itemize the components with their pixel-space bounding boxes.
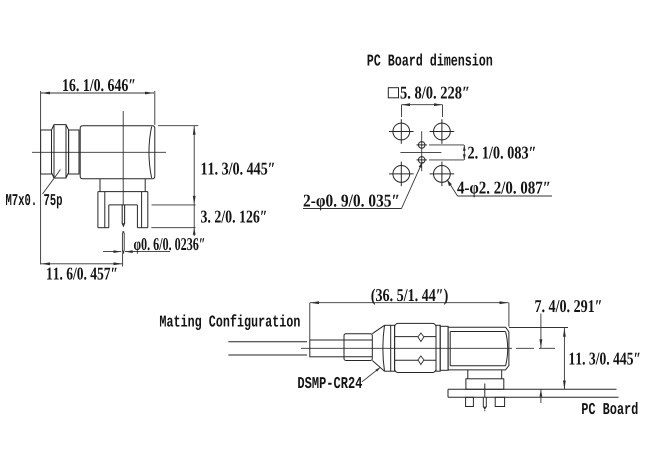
- interface face: [41, 130, 52, 174]
- body end-cap arc: [149, 127, 152, 178]
- label M7x0.75p: [6, 194, 62, 209]
- hole bottom-left: [389, 162, 414, 187]
- ext 5.8 right: [442, 105, 444, 117]
- leg inner right: [141, 192, 143, 228]
- pattern centerline horizontal: [400, 151, 441, 153]
- label 4-phi2.2: [457, 182, 549, 198]
- dim line 5.8: [402, 104, 443, 106]
- cable jacket top: [228, 341, 307, 343]
- label 16.1: [63, 79, 135, 91]
- ferrule inner top: [344, 339, 372, 341]
- ext body top right: [509, 327, 568, 329]
- leg bottom right: [137, 227, 147, 229]
- facet line upper: [395, 336, 436, 338]
- ext 5.8 left: [401, 105, 403, 117]
- cap top edge: [385, 324, 391, 326]
- slot shelf: [109, 204, 138, 206]
- pin needle tip: [122, 250, 124, 254]
- label phi 0.6: [134, 238, 204, 254]
- small hole lower: [417, 157, 427, 164]
- leg bottom left: [98, 227, 109, 229]
- leader DSMP: [362, 367, 381, 382]
- leader M7: [43, 170, 61, 195]
- cone lower: [372, 361, 384, 372]
- slot wall left: [108, 205, 110, 228]
- stem left: [99, 179, 101, 192]
- ring right: [436, 325, 440, 371]
- small hole upper: [417, 142, 427, 149]
- title Mating Configuration: [160, 314, 300, 330]
- crimp tube: [310, 340, 344, 357]
- nut chamfer line right: [65, 125, 67, 178]
- facet line lower: [395, 359, 436, 361]
- hex nut body: [395, 323, 436, 372]
- dim line 36.5: [310, 302, 509, 304]
- dim line 16.1: [41, 92, 154, 94]
- ext 36.5 right: [508, 303, 510, 327]
- nut chamfer line left: [53, 125, 55, 178]
- phi 0.6 dim arrows: [103, 251, 121, 253]
- stem right: [144, 179, 146, 192]
- ring left: [391, 325, 395, 371]
- label 7.4: [535, 300, 601, 312]
- underline 2-phi0.9: [303, 208, 402, 210]
- flange: [466, 379, 504, 390]
- dim 7.4 upper: [540, 314, 542, 349]
- cap arc: [383, 325, 385, 371]
- centerline horizontal: [32, 151, 166, 153]
- center pin through board: [484, 384, 486, 398]
- hole bottom-right: [430, 162, 455, 187]
- board left end: [447, 389, 449, 397]
- leader 4-phi2.2: [447, 180, 458, 197]
- small holes centerline vertical: [421, 131, 423, 171]
- label DSMP-CR24: [298, 377, 362, 388]
- body inner top: [450, 331, 505, 333]
- hole top-right: [430, 119, 455, 144]
- label 2-phi0.9: [304, 195, 399, 211]
- body inner left: [449, 332, 451, 366]
- center pin: [121, 205, 123, 224]
- label 2.1: [468, 147, 535, 159]
- label 36.5: [371, 289, 447, 305]
- body inner bottom: [450, 365, 505, 367]
- dim line 11.6: [41, 263, 123, 265]
- leg right below board: [495, 397, 504, 406]
- board top: [448, 388, 617, 390]
- board bottom: [448, 396, 619, 398]
- ext bottom y227.7: [151, 227, 195, 229]
- cable jacket bottom: [228, 354, 307, 356]
- stem left: [467, 370, 469, 379]
- dim 2.1 vertical: [463, 145, 465, 160]
- cone upper: [372, 325, 384, 333]
- hole top-left: [389, 119, 414, 144]
- cable centerline: [301, 347, 512, 349]
- label 11.3: [202, 163, 274, 175]
- ext 36.5 left: [309, 303, 311, 340]
- ext 11.3 top: [158, 125, 198, 127]
- square symbol: [388, 88, 398, 98]
- extension line left: [40, 91, 42, 265]
- dim 7.4 lower: [540, 390, 542, 404]
- ext 2.1 lower: [429, 159, 464, 161]
- center pin tip: [122, 223, 126, 227]
- underline 4-phi2.2: [458, 195, 553, 197]
- label PC Board: [582, 402, 637, 414]
- ferrule inner bottom: [344, 356, 372, 358]
- leader 2-phi0.9: [402, 162, 423, 209]
- label 11.6: [47, 268, 117, 280]
- cap bottom edge: [385, 370, 391, 372]
- dim line vertical 11.3 / 3.2: [193, 126, 195, 236]
- title PC Board dimension: [368, 54, 493, 66]
- diamond upper: [418, 333, 424, 342]
- neck flange: [440, 326, 448, 370]
- receptacle body: [448, 327, 509, 370]
- coupling nut: [52, 125, 69, 178]
- extension line right top: [154, 91, 156, 125]
- label 5.8: [401, 87, 469, 99]
- label 11.3 mating: [570, 353, 640, 365]
- leg outer right: [147, 192, 149, 228]
- body: [80, 126, 155, 179]
- leg outer left: [97, 192, 99, 228]
- slot wall right: [136, 205, 138, 228]
- legs block top: [98, 191, 148, 193]
- centerline vertical: [122, 111, 124, 205]
- ext 2.1 upper: [429, 144, 464, 146]
- dim 11.3 vertical: [563, 328, 565, 390]
- ext mid y205: [152, 204, 196, 206]
- ferrule: [344, 334, 372, 361]
- stem right: [501, 370, 503, 379]
- groove: [69, 130, 79, 174]
- pin needle below: [122, 231, 124, 233]
- leg inner left: [104, 192, 106, 228]
- label 3.2: [201, 211, 266, 223]
- ext for 11.6 right: [122, 253, 124, 267]
- leg left below board: [466, 397, 474, 406]
- center pin tip: [483, 407, 487, 410]
- diamond lower: [418, 356, 424, 365]
- body right arc: [506, 332, 508, 366]
